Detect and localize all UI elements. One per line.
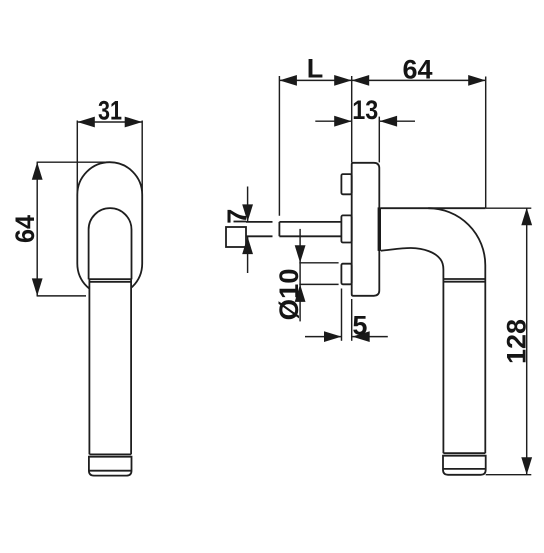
top dimension L: left arrow (279, 75, 297, 86)
svg-text:128: 128 (502, 319, 532, 364)
svg-text:31: 31 (98, 96, 122, 126)
front view: joint line 2 (89, 281, 131, 283)
top dimension L/64: left extension line (278, 76, 280, 216)
top dimension 64: left arrow (bowtie right) (352, 75, 370, 86)
side view: middle lug (341, 215, 351, 242)
dimension 31: extension lines (77, 121, 142, 197)
dimension Ø10: dimension line (299, 229, 301, 322)
front view: bottom cap outline (89, 457, 132, 476)
side view: bottom cap outline (443, 456, 486, 475)
side view: neck outer bend arc (428, 208, 485, 453)
svg-text:64: 64 (10, 215, 40, 243)
dimension 128: bottom arrow (521, 457, 532, 475)
front view: grip right edge (130, 279, 132, 454)
dimension 31: right arrow (125, 117, 143, 128)
side view: neck bottom edge and inner bend (381, 248, 444, 453)
dimension 31: left arrow (77, 117, 95, 128)
spindle: square end (226, 227, 246, 247)
dimension Ø10: extension lines (299, 263, 338, 285)
spindle: bar segment 1 (246, 222, 273, 236)
dimension Ø10: top arrow (295, 245, 306, 263)
dimension 128: top arrow (521, 208, 532, 226)
front view: bottom cap inner line (89, 470, 132, 472)
dimension 64 front: bottom extension line (37, 295, 86, 297)
top dimension L/64: dimension line (279, 79, 485, 81)
dimension 5: left arrow (324, 331, 342, 342)
dimension 5: dimension line segments (305, 336, 388, 338)
side view: bottom cap inner line (443, 468, 486, 470)
dimension 64 front: top arrow (32, 162, 43, 180)
front view: grip bottom line (89, 453, 131, 455)
dimension 13: right arrow (380, 116, 398, 127)
dimension Ø10: bottom arrow (295, 284, 306, 302)
side view: neck top edge with 128 top extension (486, 207, 532, 209)
svg-text:L: L (307, 54, 324, 84)
svg-text:Ø10: Ø10 (274, 268, 304, 320)
svg-text:7: 7 (222, 209, 252, 224)
spindle: bar segment 2 (279, 222, 341, 236)
front view: outer head stadium (77, 162, 142, 296)
front view: grip left edge (88, 279, 90, 454)
top dimension L/64: middle extension line (351, 76, 353, 162)
dimension 5: right extension line (351, 299, 353, 341)
dimension 13: left arrow (334, 116, 352, 127)
side view: bottom lug (341, 264, 351, 285)
dimension 7: top extension dash (234, 221, 247, 223)
top dimension L: right arrow (bowtie left) (334, 75, 352, 86)
dimension 7: bottom arrow (242, 237, 253, 255)
side view: rosette plate (352, 163, 380, 296)
top dimension L/64: right extension line (485, 77, 487, 209)
dimension 7: dimension line (247, 187, 249, 274)
top dimension 64: right arrow (468, 75, 486, 86)
dimension 64 front: bottom arrow (32, 278, 43, 296)
svg-text:5: 5 (352, 311, 367, 341)
side view: grip joint line 1 (443, 278, 485, 280)
front view: grip white cover (89, 270, 131, 455)
side view: grip joint line 2 (443, 281, 485, 283)
dimension 128: dimension line (526, 208, 528, 475)
dimension 13: dimension line segments (315, 120, 415, 122)
front view: joint line 1 (89, 278, 132, 280)
side view: top lug (341, 174, 351, 194)
dimension 31: dimension line (77, 121, 142, 123)
dimension 5: right arrow (352, 331, 370, 342)
svg-text:13: 13 (352, 95, 378, 125)
dimension 64 front: top extension line (37, 161, 109, 163)
dimension 64 front: dimension line (36, 162, 38, 296)
side view: grip bottom line (443, 452, 485, 454)
dimension 7: top arrow (242, 204, 253, 222)
side view: neck-plate junction band (378, 207, 381, 251)
dimension 13: right extension line (378, 117, 380, 163)
svg-text:64: 64 (403, 55, 433, 85)
front view: inner stadium (89, 208, 132, 279)
dimension 5: left extension line (341, 289, 343, 341)
dimension 128: bottom extension line (486, 474, 532, 476)
